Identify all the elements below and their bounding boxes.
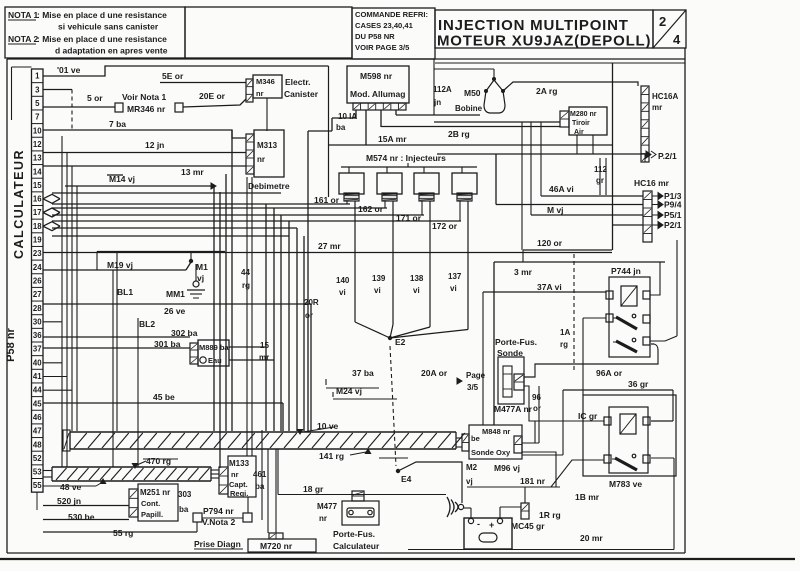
svg-text:12: 12: [33, 140, 42, 149]
svg-text:139: 139: [372, 274, 386, 283]
svg-text:-: -: [477, 519, 480, 529]
svg-text:Capt.: Capt.: [229, 480, 248, 489]
svg-text:10 ve: 10 ve: [317, 421, 339, 431]
svg-text:Porte-Fus.: Porte-Fus.: [495, 337, 537, 347]
svg-text:1B mr: 1B mr: [575, 492, 600, 502]
svg-text:137: 137: [448, 272, 462, 281]
svg-text:M251 nr: M251 nr: [140, 488, 170, 497]
svg-text:44: 44: [33, 386, 42, 395]
svg-text:M1: M1: [196, 262, 208, 272]
svg-text:23: 23: [33, 249, 42, 258]
svg-text:rg: rg: [560, 340, 568, 349]
svg-text:303: 303: [178, 490, 192, 499]
svg-text:3: 3: [35, 85, 40, 94]
svg-text:530 be: 530 be: [68, 512, 95, 522]
svg-text:Porte-Fus.: Porte-Fus.: [333, 529, 375, 539]
svg-text:or: or: [305, 311, 313, 320]
svg-text:5E or: 5E or: [162, 71, 184, 81]
svg-text:20E or: 20E or: [199, 91, 226, 101]
svg-text:IC gr: IC gr: [578, 411, 598, 421]
svg-text:40: 40: [33, 358, 42, 367]
svg-text:20A or: 20A or: [421, 368, 448, 378]
svg-text:18: 18: [33, 222, 42, 231]
svg-text:be: be: [471, 434, 480, 443]
svg-text:520 jn: 520 jn: [57, 496, 81, 506]
svg-text:5: 5: [35, 99, 40, 108]
svg-text:Tiroir: Tiroir: [572, 120, 590, 127]
svg-text:1R rg: 1R rg: [539, 510, 561, 520]
svg-text:CASES 23,40,41: CASES 23,40,41: [355, 21, 414, 30]
svg-text:M720 nr: M720 nr: [260, 541, 293, 551]
svg-text:112: 112: [594, 165, 607, 174]
svg-text:26 ve: 26 ve: [164, 306, 186, 316]
svg-text:BL1: BL1: [117, 287, 133, 297]
svg-text:P744 jn: P744 jn: [611, 266, 641, 276]
svg-text:55 rg: 55 rg: [113, 528, 133, 538]
svg-text:Regi.: Regi.: [230, 489, 248, 498]
svg-text:jn: jn: [433, 98, 441, 107]
svg-text:96A or: 96A or: [596, 368, 623, 378]
svg-text:INJECTION MULTIPOINT: INJECTION MULTIPOINT: [438, 17, 629, 34]
svg-text:ba: ba: [336, 123, 346, 132]
svg-text:162 or: 162 or: [358, 204, 384, 214]
svg-text:172 or: 172 or: [432, 221, 458, 231]
svg-text:19: 19: [33, 236, 42, 245]
svg-text:MC45 gr: MC45 gr: [511, 521, 545, 531]
svg-text:mr: mr: [652, 103, 662, 112]
svg-text:M133: M133: [229, 459, 250, 468]
svg-text:45 be: 45 be: [153, 392, 175, 402]
svg-text:M598 nr: M598 nr: [360, 71, 393, 81]
svg-text:52: 52: [33, 454, 42, 463]
svg-text:26: 26: [33, 276, 42, 285]
svg-text:140: 140: [336, 276, 350, 285]
svg-text:: Mise en place d une resistan: : Mise en place d une resistance: [37, 34, 167, 44]
svg-text:Voir Nota 1: Voir Nota 1: [122, 92, 167, 102]
svg-text:COMMANDE REFRI:: COMMANDE REFRI:: [355, 10, 428, 19]
svg-text:53: 53: [33, 468, 42, 477]
svg-text:Calculateur: Calculateur: [333, 541, 380, 551]
svg-text:Debimetre: Debimetre: [248, 181, 290, 191]
svg-text:M vj: M vj: [547, 205, 564, 215]
svg-text:M574 nr : Injecteurs: M574 nr : Injecteurs: [366, 153, 446, 163]
svg-text:20 mr: 20 mr: [580, 533, 603, 543]
svg-text:d adaptation en apres vente: d adaptation en apres vente: [55, 46, 168, 56]
svg-text:138: 138: [410, 274, 424, 283]
svg-text:27: 27: [33, 290, 42, 299]
svg-text:P2/1: P2/1: [664, 220, 682, 230]
svg-text:E2: E2: [395, 337, 406, 347]
svg-text:'01 ve: '01 ve: [57, 65, 81, 75]
svg-text:4: 4: [673, 32, 681, 47]
svg-text:20R: 20R: [304, 298, 319, 307]
svg-text:36 gr: 36 gr: [628, 379, 649, 389]
svg-text:2B rg: 2B rg: [448, 129, 470, 139]
svg-text:HC16A: HC16A: [652, 92, 678, 101]
svg-text:48 ve: 48 ve: [60, 482, 82, 492]
svg-text:41: 41: [33, 372, 42, 381]
svg-text:14: 14: [33, 167, 42, 176]
svg-text:M477: M477: [317, 502, 338, 511]
svg-text:vi: vi: [339, 288, 346, 297]
svg-text:M96 vj: M96 vj: [494, 463, 520, 473]
svg-text:DU P58 NR: DU P58 NR: [355, 32, 395, 41]
svg-text:vj: vj: [466, 477, 473, 486]
svg-text:96: 96: [532, 393, 541, 402]
svg-text:3/5: 3/5: [467, 383, 479, 392]
svg-text:P794 nr: P794 nr: [203, 506, 234, 516]
svg-text:Canister: Canister: [284, 89, 319, 99]
svg-text:vi: vi: [413, 286, 420, 295]
svg-text:M24 vj: M24 vj: [336, 386, 362, 396]
svg-text:44: 44: [241, 268, 250, 277]
svg-text:470 rg: 470 rg: [146, 456, 171, 466]
svg-text:NOTA 2: NOTA 2: [8, 34, 38, 44]
svg-text:13 mr: 13 mr: [181, 167, 204, 177]
svg-text:5 or: 5 or: [87, 93, 103, 103]
svg-text:V.Nota 2: V.Nota 2: [202, 517, 236, 527]
svg-text:10: 10: [33, 126, 42, 135]
svg-text:rg: rg: [242, 281, 250, 290]
svg-text:M14 vj: M14 vj: [109, 174, 135, 184]
svg-text:Electr.: Electr.: [285, 77, 311, 87]
svg-text:M313: M313: [257, 141, 278, 150]
svg-text:nr: nr: [231, 470, 239, 479]
svg-text:46A vi: 46A vi: [549, 184, 574, 194]
svg-text:nr: nr: [257, 155, 265, 164]
svg-text:24: 24: [33, 263, 42, 272]
svg-text:Cont.: Cont.: [141, 499, 160, 508]
svg-text:27 mr: 27 mr: [318, 241, 341, 251]
svg-text:17: 17: [33, 208, 42, 217]
svg-text:13: 13: [33, 154, 42, 163]
svg-text:M50: M50: [464, 88, 481, 98]
svg-text:vi: vi: [450, 284, 457, 293]
svg-text:37 ba: 37 ba: [352, 368, 374, 378]
svg-text:or: or: [533, 404, 541, 413]
svg-text:37: 37: [33, 345, 42, 354]
svg-text:12 jn: 12 jn: [145, 140, 164, 150]
svg-text:28: 28: [33, 304, 42, 313]
svg-text:37A vi: 37A vi: [537, 282, 562, 292]
svg-text:ba: ba: [255, 482, 265, 491]
svg-text:M848 nr: M848 nr: [482, 427, 510, 436]
svg-text:Papill.: Papill.: [141, 510, 163, 519]
svg-text:Prise Diagn: Prise Diagn: [194, 539, 241, 549]
svg-text:BL2: BL2: [139, 319, 155, 329]
svg-text:P5/1: P5/1: [664, 210, 682, 220]
svg-text:10 IA: 10 IA: [338, 112, 357, 121]
svg-text:P58 nr: P58 nr: [5, 327, 17, 361]
svg-text:NOTA 1: NOTA 1: [8, 10, 38, 20]
svg-text:ba: ba: [179, 505, 189, 514]
svg-text:15: 15: [33, 181, 42, 190]
svg-text:2: 2: [659, 14, 666, 29]
svg-text:1A: 1A: [560, 328, 570, 337]
svg-text:CALCULATEUR: CALCULATEUR: [12, 149, 26, 259]
svg-text:36: 36: [33, 331, 42, 340]
svg-text:E4: E4: [401, 474, 412, 484]
svg-text:M2: M2: [466, 463, 478, 472]
svg-text:15: 15: [260, 341, 269, 350]
svg-text:MR346 nr: MR346 nr: [127, 104, 166, 114]
svg-text:M783 ve: M783 ve: [609, 479, 642, 489]
svg-text:: Mise en place d une resistan: : Mise en place d une resistance: [37, 10, 167, 20]
svg-text:si vehicule sans canister: si vehicule sans canister: [58, 22, 159, 32]
svg-text:M346: M346: [256, 77, 275, 86]
svg-text:461: 461: [253, 470, 267, 479]
svg-text:141 rg: 141 rg: [319, 451, 344, 461]
svg-text:P.2/1: P.2/1: [658, 151, 677, 161]
svg-text:1: 1: [35, 72, 40, 81]
svg-text:MM1: MM1: [166, 289, 185, 299]
svg-text:7 ba: 7 ba: [109, 119, 126, 129]
svg-text:161 or: 161 or: [314, 195, 340, 205]
svg-text:46: 46: [33, 413, 42, 422]
svg-text:55: 55: [33, 481, 42, 490]
svg-text:MOTEUR XU9JAZ(DEPOLL): MOTEUR XU9JAZ(DEPOLL): [437, 33, 651, 50]
svg-text:112A: 112A: [433, 85, 452, 94]
svg-text:171 or: 171 or: [396, 213, 422, 223]
svg-text:7: 7: [35, 113, 39, 122]
svg-text:M280 nr: M280 nr: [570, 111, 597, 118]
svg-text:VOIR PAGE 3/5: VOIR PAGE 3/5: [355, 43, 410, 52]
svg-text:Page: Page: [466, 371, 486, 380]
svg-text:301 ba: 301 ba: [154, 339, 181, 349]
svg-text:mr: mr: [259, 353, 269, 362]
svg-text:P9/4: P9/4: [664, 200, 682, 210]
svg-text:120 or: 120 or: [537, 238, 563, 248]
svg-text:2A rg: 2A rg: [536, 86, 557, 96]
svg-text:HC16 mr: HC16 mr: [634, 178, 670, 188]
svg-text:Bobine: Bobine: [455, 104, 483, 113]
svg-text:16: 16: [33, 195, 42, 204]
svg-text:+: +: [489, 520, 494, 530]
svg-text:vi: vi: [374, 286, 381, 295]
svg-text:M19 vj: M19 vj: [107, 260, 133, 270]
svg-text:48: 48: [33, 440, 42, 449]
svg-text:45: 45: [33, 399, 42, 408]
svg-text:Mod. Allumag: Mod. Allumag: [350, 89, 405, 99]
svg-text:3 mr: 3 mr: [514, 267, 533, 277]
svg-text:nr: nr: [319, 514, 327, 523]
svg-text:302 ba: 302 ba: [171, 328, 198, 338]
svg-text:nr: nr: [256, 89, 264, 98]
svg-text:181 nr: 181 nr: [520, 476, 546, 486]
svg-text:47: 47: [33, 427, 42, 436]
svg-text:Sonde Oxy: Sonde Oxy: [471, 448, 511, 457]
svg-text:15A mr: 15A mr: [378, 134, 407, 144]
svg-text:30: 30: [33, 317, 42, 326]
svg-text:M477A nr: M477A nr: [494, 404, 533, 414]
svg-text:Air: Air: [574, 129, 584, 136]
svg-text:18 gr: 18 gr: [303, 484, 324, 494]
